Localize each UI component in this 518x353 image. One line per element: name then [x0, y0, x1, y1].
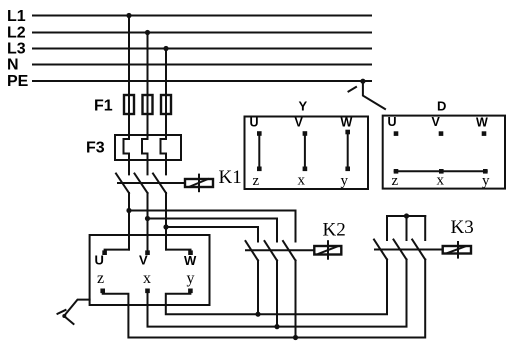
- svg-text:K2: K2: [323, 220, 346, 241]
- svg-text:L1: L1: [7, 8, 26, 25]
- node junction y-wire / K2c1: [255, 312, 260, 317]
- svg-text:N: N: [7, 57, 19, 74]
- overload element phase2 jog: [142, 139, 148, 174]
- node tap L3: [163, 46, 168, 51]
- contactor K2 contact3 blade: [283, 241, 296, 261]
- contactor K2 contact1 blade: [246, 241, 259, 261]
- node C junction phase3: [163, 224, 168, 229]
- svg-text:V: V: [432, 115, 441, 129]
- wire V entry: [147, 250, 149, 251]
- D terminal x: [439, 169, 444, 174]
- Y connection box: [245, 117, 369, 190]
- svg-text:W: W: [184, 253, 197, 268]
- K1 linkage line: [118, 182, 185, 184]
- node B junction phase2: [145, 216, 150, 221]
- K3 contact3 upper wire: [424, 216, 426, 240]
- wire through fuses: [129, 95, 166, 114]
- terminal U: [102, 250, 107, 255]
- node junction z-wire / K2c3: [293, 335, 298, 340]
- D terminal U: [394, 131, 399, 136]
- wire z to bottom bus3: [103, 260, 426, 338]
- K2 coil: [314, 241, 341, 259]
- wire phase1 below K1: [128, 193, 130, 250]
- svg-text:V: V: [295, 116, 304, 130]
- D shorting bar z-x-y: [395, 170, 487, 172]
- K2 contact2 lower wire: [276, 261, 278, 327]
- svg-text:F1: F1: [94, 98, 113, 115]
- wire y to bottom bus1: [166, 260, 387, 315]
- K3 contact2 upper wire: [406, 216, 408, 240]
- svg-text:x: x: [143, 270, 151, 287]
- svg-text:x: x: [298, 173, 306, 189]
- wire phase3 drop: [165, 49, 167, 140]
- svg-text:K3: K3: [451, 217, 474, 238]
- wire phase2 to K2 contact2: [148, 219, 278, 242]
- PE earth tap: [349, 79, 386, 109]
- node K3 bar junction: [404, 213, 409, 218]
- svg-text:W: W: [476, 116, 488, 130]
- Y terminal y: [345, 167, 350, 172]
- K3 linkage line: [375, 249, 443, 251]
- contactor K3 contact3 blade: [412, 240, 425, 260]
- K2 contact3 lower wire: [295, 261, 297, 338]
- svg-text:F3: F3: [86, 140, 105, 157]
- D terminal W: [482, 131, 487, 136]
- contactor K3 contact1 blade: [374, 240, 387, 260]
- svg-text:y: y: [187, 270, 195, 287]
- wire U entry elbow: [105, 250, 129, 251]
- Y terminal x: [303, 167, 308, 172]
- wire phase3 to K2 contact1: [166, 227, 258, 242]
- overload relay F3 box: [115, 135, 181, 160]
- node A junction phase1: [126, 208, 131, 213]
- svg-text:L3: L3: [7, 41, 26, 58]
- svg-text:U: U: [388, 115, 397, 129]
- svg-text:D: D: [437, 99, 446, 114]
- overload element phase3 jog: [161, 139, 167, 174]
- Y link W-y: [347, 132, 349, 169]
- svg-text:W: W: [341, 116, 353, 130]
- K3 star bar: [387, 215, 425, 217]
- svg-text:z: z: [392, 173, 399, 189]
- fuse F1a: [124, 95, 134, 114]
- K3 contact1 upper wire: [386, 216, 388, 240]
- svg-text:U: U: [250, 116, 259, 130]
- svg-text:Y: Y: [299, 99, 308, 114]
- Y terminal U: [257, 131, 262, 136]
- node junction x-wire / K2c2: [274, 324, 279, 329]
- terminal z: [100, 289, 105, 294]
- fuse F1c: [161, 95, 171, 114]
- K2 contact1 lower wire: [257, 261, 259, 315]
- D terminal V: [439, 131, 444, 136]
- node tap L2: [145, 30, 150, 35]
- wire phase2 drop: [147, 33, 149, 140]
- bus L2: [7, 25, 371, 42]
- D terminal y: [483, 169, 488, 174]
- bus L1: [7, 8, 371, 25]
- svg-text:L2: L2: [7, 25, 26, 42]
- wire phase1 to K2 contact3: [129, 211, 296, 242]
- Y terminal W: [345, 130, 350, 135]
- svg-text:x: x: [437, 173, 445, 189]
- contactor K1 contact 3 blade: [153, 174, 166, 194]
- K1 coil: [185, 175, 213, 192]
- terminal x: [145, 289, 150, 294]
- K3 coil: [443, 242, 471, 258]
- bus N: [7, 57, 371, 74]
- svg-text:PE: PE: [7, 73, 29, 90]
- wire x to bottom bus2: [148, 260, 407, 327]
- svg-text:V: V: [139, 253, 148, 268]
- contactor K3 contact2 blade: [394, 240, 407, 260]
- svg-text:z: z: [253, 173, 260, 189]
- svg-text:y: y: [341, 173, 349, 189]
- motor terminal box: [90, 235, 210, 305]
- Y link V-x: [304, 134, 306, 169]
- wire W entry elbow: [166, 250, 191, 251]
- D terminal z: [394, 169, 399, 174]
- bus PE: [7, 73, 371, 90]
- terminal y: [188, 289, 193, 294]
- D connection box: [383, 116, 505, 189]
- svg-text:K1: K1: [219, 167, 242, 188]
- wire phase3 below K1: [165, 193, 167, 250]
- contactor K1 contact 2 blade: [135, 174, 148, 194]
- bus L3: [7, 41, 371, 58]
- wire phase2 below K1: [147, 193, 149, 251]
- overload element phase1 jog: [124, 139, 130, 174]
- K2 linkage line: [246, 249, 314, 251]
- Y terminal V: [303, 131, 308, 136]
- Y link U-z: [258, 134, 260, 169]
- ground frame connection at motor: [58, 300, 90, 324]
- contactor K2 contact2 blade: [265, 241, 278, 261]
- wire phase1 drop: [128, 16, 130, 140]
- terminal W: [188, 250, 193, 255]
- svg-text:U: U: [95, 253, 104, 268]
- fuse F1b: [143, 95, 153, 114]
- terminal V: [145, 250, 150, 255]
- svg-text:z: z: [97, 270, 104, 287]
- node tap L1: [126, 13, 131, 18]
- Y terminal z: [257, 167, 262, 172]
- svg-text:y: y: [482, 173, 490, 189]
- contactor K1 contact 1 blade: [116, 174, 129, 194]
